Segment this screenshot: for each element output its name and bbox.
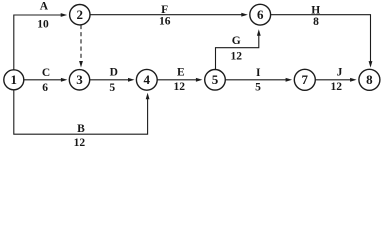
wire I: node 5 to node 7	[225, 79, 286, 81]
svg-text:12: 12	[330, 81, 342, 93]
dummy wire: node 2 dashed down to node 3	[80, 25, 82, 61]
arrowhead C into node 3	[61, 78, 68, 82]
arrowhead G into node 6	[257, 29, 261, 36]
arrowhead J into node 8	[350, 78, 357, 82]
svg-text:A: A	[40, 1, 49, 13]
svg-text:12: 12	[230, 50, 242, 62]
arrowhead D into node 4	[128, 78, 135, 82]
node 6	[250, 4, 271, 25]
wire G: node 5 up, right, up into node 6	[216, 35, 259, 70]
svg-text:5: 5	[109, 82, 115, 94]
node 2	[70, 5, 90, 25]
node 5	[205, 70, 226, 91]
arrowhead A into node 2	[61, 13, 67, 17]
svg-text:4: 4	[144, 72, 151, 87]
arrowhead I into node 7	[286, 78, 293, 82]
svg-text:G: G	[232, 35, 241, 47]
svg-text:I: I	[256, 67, 261, 79]
wire C: node 1 to node 3	[24, 79, 62, 81]
node 3	[69, 70, 89, 90]
wire F: node 2 to node 6	[90, 14, 242, 16]
node 8	[359, 69, 380, 90]
svg-text:6: 6	[42, 82, 48, 94]
wire A: node 1 up and right to node 2	[14, 15, 62, 70]
svg-text:J: J	[337, 67, 343, 79]
svg-text:12: 12	[74, 137, 86, 149]
svg-text:1: 1	[11, 72, 18, 87]
svg-text:C: C	[42, 67, 50, 79]
node 1	[4, 70, 24, 90]
svg-text:8: 8	[313, 16, 319, 28]
svg-text:E: E	[177, 66, 185, 78]
svg-text:5: 5	[212, 72, 219, 87]
svg-text:H: H	[311, 4, 320, 16]
arrowhead H into node 8	[369, 61, 373, 68]
arrowhead F into node 6	[241, 13, 248, 17]
svg-text:F: F	[161, 4, 168, 16]
svg-text:2: 2	[77, 7, 84, 22]
arrowhead E into node 5	[196, 78, 203, 82]
svg-text:16: 16	[159, 16, 171, 28]
arrowhead dummy into node 3	[79, 61, 83, 68]
node 4	[136, 69, 157, 90]
svg-text:3: 3	[76, 72, 83, 87]
svg-text:5: 5	[255, 82, 261, 94]
svg-text:12: 12	[174, 81, 186, 93]
wire D: node 3 to node 4	[90, 79, 129, 81]
svg-text:7: 7	[302, 72, 309, 87]
svg-text:B: B	[77, 123, 85, 135]
wire B: node 1 down, right, up into node 4	[14, 90, 148, 134]
svg-text:D: D	[110, 67, 118, 79]
svg-text:8: 8	[366, 72, 373, 87]
arrowhead B into node 4	[146, 93, 150, 100]
svg-text:10: 10	[37, 18, 49, 30]
wire E: node 4 to node 5	[157, 79, 196, 81]
wire J: node 7 to node 8	[315, 79, 351, 81]
wire H: node 6 right then down into node 8	[271, 15, 371, 66]
svg-text:6: 6	[257, 7, 264, 22]
node 7	[294, 69, 315, 90]
